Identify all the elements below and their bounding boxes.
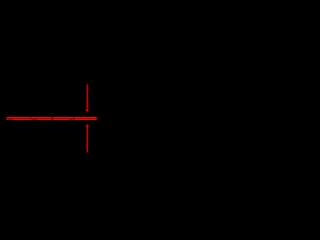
row117 notch b bbox=[29, 117, 31, 118]
beam bar top edge (row y117, bright red) bbox=[5, 117, 98, 118]
row117 notch c bbox=[51, 117, 54, 118]
row119 dim segment d bbox=[69, 119, 75, 120]
beam bar middle (row y118, dark red) bbox=[5, 118, 98, 119]
up arrowhead (tip toward bar bottom) bbox=[85, 124, 89, 127]
row119 dim segment c bbox=[51, 119, 54, 120]
beam bar bottom edge (row y119, bright red) bbox=[5, 119, 98, 120]
reaction arrow lower shaft (x86-88, y127-152.5) bbox=[86, 127, 89, 153]
down arrowhead (tip toward bar top) bbox=[85, 108, 89, 113]
row117 notch a bbox=[10, 117, 12, 118]
row117 notch d bbox=[73, 117, 75, 118]
force arrow upper shaft (x86-88, y84-108) bbox=[86, 84, 89, 109]
row119 dim segment a bbox=[8, 119, 14, 120]
row119 dim segment b bbox=[31, 119, 37, 120]
